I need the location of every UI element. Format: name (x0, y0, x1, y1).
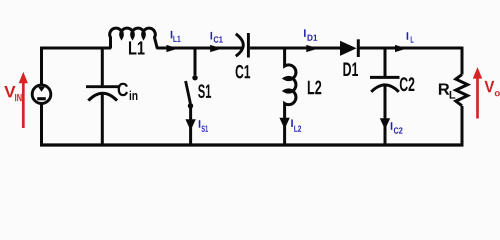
labelpath C1 (236, 65, 251, 78)
switch S1 blade (186, 81, 191, 104)
labelpath L2 (308, 81, 321, 95)
wire top rail L1 to C1 (157, 47, 244, 50)
labelpath ID1 I (304, 29, 306, 37)
labelpath VIN V (4, 86, 15, 97)
capacitor C2 stub top (384, 48, 387, 76)
source inner bar (37, 97, 46, 100)
labelpath VO sub (495, 91, 500, 96)
diode D1 triangle (340, 41, 357, 56)
arrow IL (395, 45, 407, 52)
inductor L2 (285, 48, 296, 146)
labelpath L1 (129, 41, 145, 54)
labelpath IC1 I (211, 32, 213, 40)
wire left rail upper (40, 47, 43, 86)
switch S1 stub top (194, 48, 197, 75)
labelpath RL sub (450, 91, 456, 99)
arrow ID1 (306, 45, 318, 52)
labelpath IC2 sub (394, 127, 403, 133)
arrow IL2 (279, 118, 289, 129)
arrow VO red (473, 67, 482, 119)
wire right rail lower (461, 106, 464, 146)
wire right rail upper (461, 47, 464, 75)
resistor RL zigzag (456, 75, 468, 106)
labelpath VO V (485, 81, 495, 92)
labelpath Cin sub (130, 91, 138, 100)
capacitor C1 straight plate (247, 33, 250, 58)
arrow IL1 (166, 45, 178, 52)
labelpath IC2 I (391, 122, 393, 130)
capacitor C2 stub bottom (384, 86, 387, 146)
capacitor Cin top plate (86, 85, 120, 88)
switch S1 contact dot bottom (188, 103, 193, 108)
labelpath Cin C (118, 83, 128, 96)
capacitor C2 top plate (370, 76, 400, 79)
arrow IC1 (210, 45, 222, 52)
labelpath VIN sub (15, 94, 21, 101)
labelpath ID1 sub (308, 35, 318, 41)
wire left rail lower (40, 103, 43, 146)
labelpath D1 (343, 63, 358, 76)
labelpath IC1 sub (214, 36, 223, 42)
labelpath S1 (198, 84, 211, 98)
labelpath IS1 sub (201, 126, 208, 132)
labelpath RL R (439, 83, 449, 94)
wire bottom rail (40, 143, 463, 146)
inductor L1 (110, 28, 158, 48)
capacitor Cin stub top (101, 48, 104, 85)
labelpath C2 (400, 77, 415, 91)
wire top rail C1 to D1 (250, 47, 341, 50)
labelpath IL1 I (171, 31, 173, 39)
source VIN circle (32, 85, 51, 104)
switch S1 stub bottom (189, 107, 192, 146)
arrow VIN red (19, 72, 28, 128)
source inner triangle (38, 87, 45, 92)
diode D1 cathode bar (357, 39, 360, 57)
capacitor Cin stub bottom (101, 94, 104, 146)
labelpath IL sub (411, 36, 414, 42)
labelpath IL2 sub (294, 126, 301, 132)
labelpath IL I (407, 32, 409, 40)
arrow IC2 (380, 118, 390, 129)
labelpath IL2 I (291, 119, 293, 127)
wire top rail (42, 47, 112, 50)
wire top rail D1 to right corner (359, 47, 463, 50)
arrow IS1 (185, 119, 195, 130)
labelpath IL1 sub (173, 36, 180, 42)
switch S1 contact dot top (192, 75, 197, 80)
capacitor Cin curved plate (88, 93, 117, 100)
labelpath IS1 I (199, 120, 201, 128)
capacitor C2 curved plate (371, 85, 399, 92)
capacitor C1 curved plate (236, 34, 244, 56)
